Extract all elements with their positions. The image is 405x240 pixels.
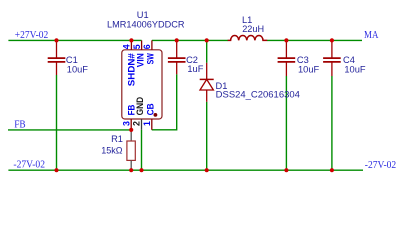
capacitor C4	[323, 40, 341, 76]
pin 5 VIN	[141, 40, 143, 49]
svg-text:GND: GND	[135, 97, 145, 116]
pin 2 GND	[141, 119, 143, 130]
pin 1 CB	[151, 119, 153, 130]
svg-text:-27V-02: -27V-02	[13, 160, 45, 171]
capacitor C2	[168, 40, 186, 74]
svg-text:VIN: VIN	[135, 53, 145, 67]
svg-text:DSS24_C20616304: DSS24_C20616304	[216, 89, 300, 99]
capacitor C1	[48, 40, 66, 75]
svg-text:4: 4	[122, 44, 132, 49]
svg-text:10uF: 10uF	[344, 64, 366, 74]
junction GND bottom	[139, 168, 143, 172]
junction C1 bottom	[54, 168, 58, 172]
pin 3 FB	[130, 119, 132, 130]
wire top rail +27V net	[8, 39, 141, 41]
junction C1 top	[54, 38, 58, 42]
junction pin4	[129, 38, 133, 42]
pin 4 SHDN#	[130, 40, 132, 49]
junction C3 top	[284, 38, 288, 42]
svg-text:FB: FB	[14, 119, 25, 130]
svg-text:1: 1	[142, 121, 152, 126]
svg-text:-27V-02: -27V-02	[365, 160, 396, 171]
svg-text:LMR14006YDDCR: LMR14006YDDCR	[107, 20, 185, 30]
svg-text:5: 5	[132, 44, 142, 49]
diode D1	[200, 63, 214, 102]
wire bottom rail -27V net	[8, 169, 363, 171]
wire C1 to bottom rail	[56, 75, 58, 170]
wire GND pin to rail	[141, 130, 143, 170]
svg-text:+27V-02: +27V-02	[15, 30, 49, 41]
pin dot CB	[154, 113, 158, 117]
junction C2 top	[175, 38, 179, 42]
svg-text:6: 6	[142, 44, 152, 49]
inductor L1	[228, 35, 268, 40]
svg-text:MA: MA	[364, 30, 379, 41]
junction C4 bottom	[330, 168, 334, 172]
svg-text:3: 3	[121, 121, 131, 126]
pin 6 SW	[151, 40, 153, 49]
svg-text:1uF: 1uF	[187, 64, 203, 74]
wire top rail output net	[267, 39, 362, 41]
capacitor C3	[278, 40, 296, 76]
svg-text:SW: SW	[146, 53, 156, 64]
svg-text:22uH: 22uH	[242, 24, 264, 34]
svg-text:U1: U1	[137, 10, 149, 20]
svg-text:15kΩ: 15kΩ	[101, 145, 122, 155]
svg-text:10uF: 10uF	[67, 64, 89, 74]
IC U1 LMR14006YDDCR body	[122, 50, 162, 119]
wire C2 bottom to CB pin	[152, 74, 177, 130]
svg-text:2: 2	[132, 121, 142, 126]
wire D1 top	[206, 40, 208, 62]
junction D1 top	[205, 38, 209, 42]
junction C4 top	[330, 38, 334, 42]
svg-text:CB: CB	[145, 103, 155, 115]
svg-text:10uF: 10uF	[298, 64, 320, 74]
wire C4 bottom to rail	[331, 76, 333, 170]
wire FB net	[8, 129, 131, 131]
junction R1 bottom	[129, 168, 133, 172]
junction C3 bottom	[284, 168, 288, 172]
svg-text:R1: R1	[111, 134, 123, 144]
wire C3 bottom to rail	[285, 76, 287, 170]
junction FB node	[129, 128, 133, 132]
wire top rail SW net	[152, 39, 228, 41]
junction D1 bottom	[205, 168, 209, 172]
wire D1 bottom to rail	[206, 102, 208, 170]
resistor R1	[130, 130, 132, 141]
